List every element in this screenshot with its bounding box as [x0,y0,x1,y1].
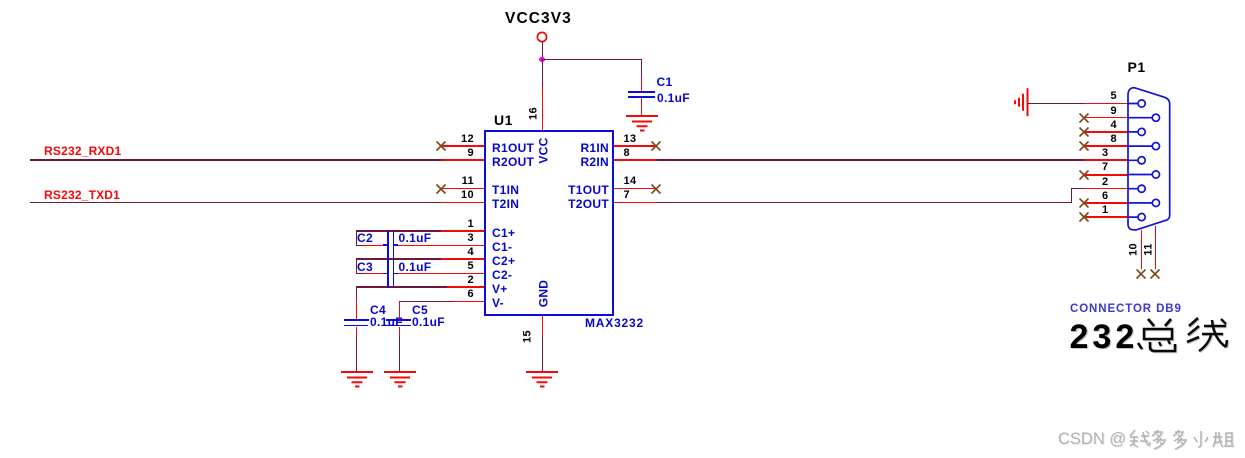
pin label T2OUT [489,199,609,210]
label 232 (bus title digits) [1070,320,1139,354]
ground U1 pin15 [526,371,558,389]
pin number 1 (P1) [1079,205,1109,216]
label 总 (hand-drawn glyph) [1135,317,1183,353]
wire pin1 C1+ row [356,230,441,232]
no-connect X P1 pin7 [1078,169,1090,181]
pin number 8 [624,148,631,159]
pin number 6 [444,289,474,300]
ground C5 [384,371,416,389]
wire C1 lower lead [641,98,642,116]
pin label GND rotated [538,274,549,314]
label 线 (hand-drawn glyph) [1184,317,1232,353]
no-connect X pin11 [435,183,447,195]
watermark CSDN [1058,430,1126,449]
capacitor C1 [628,91,655,93]
op-amp U1 MAX3232 body [484,130,614,316]
no-connect X pin12 [435,140,447,152]
no-connect X P1 pin4 [1078,126,1090,138]
label C5 [412,305,428,316]
node junction VCC [539,57,544,62]
wire pin15 GND stem [542,316,543,337]
pin number 9 [444,148,474,159]
no-connect X P1 pin10 [1135,268,1147,280]
wire P1 pin10 [1141,230,1142,269]
pin number 11 [444,176,474,187]
pin number 7 [624,190,631,201]
pin number 5 [444,261,474,272]
wire corner pin1-C2 [356,231,357,246]
label MAX3232 [585,318,644,329]
label C2 [357,233,373,244]
wire pin16 stem [542,60,543,86]
wire C1 upper lead [641,59,642,76]
wire VCC horizontal to C1 [542,59,642,60]
pin number 10 [444,190,474,201]
pin number 13 [624,134,637,145]
no-connect X P1 pin8 [1078,140,1090,152]
ground P1 pin5 (rotated earth) [1012,86,1030,118]
pin number 9 (P1) [1087,106,1117,117]
pin number 3 (P1) [1079,148,1109,159]
pin number 15 rotated [522,327,533,345]
pin number 4 [444,247,474,258]
no-connect X P1 pin9 [1078,112,1090,124]
pin label R2OUT [492,157,534,168]
pin number 8 (P1) [1087,134,1117,145]
net RS232_TXD1 [44,190,120,201]
wire P1 pin11 [1155,226,1156,269]
label U1 [494,115,513,126]
wire P1 pin7 stub [1084,174,1128,176]
pin label C1+ [492,228,515,239]
wire net pin7 to P1 pin2 [614,202,657,203]
pin number 5 (P1) [1087,91,1117,102]
pin number 12 [444,134,474,145]
no-connect X pin14 [650,183,662,195]
wire net pin8 to P1 pin3 [614,159,658,161]
wire P1 pin8 stub [1084,145,1128,147]
pin label VCC rotated [538,131,549,171]
label P1 [1128,62,1146,73]
pin number 2 [444,275,474,286]
label C1 [657,77,673,88]
wire RXD1 [30,159,441,161]
wire P1 pin1 stub [1084,216,1128,218]
label C4 [370,305,386,316]
wire pin2 V+ row [356,286,447,288]
pin number 4 (P1) [1087,120,1117,131]
wire C5 lower lead [399,327,400,337]
wire C4 lower lead [356,327,357,337]
no-connect X pin13 [650,140,662,152]
pin number 3 [444,233,474,244]
wire pin12 stub [441,145,484,147]
wire pin14 stub [614,188,657,189]
wire V- down to C5 [399,302,400,319]
no-connect X P1 pin6 [1078,197,1090,209]
pin label T2IN [492,199,519,210]
pin number 16 rotated [528,105,539,123]
pin label R2IN [489,157,609,168]
ground C4 [341,371,373,389]
capacitor C5 [386,319,411,321]
pin label R1IN [489,143,609,154]
wire corner pin4-C3 [356,259,357,274]
pin number 11 rotated [1143,238,1154,260]
capacitor C4 [344,319,369,321]
pin number 6 (P1) [1079,191,1109,202]
wire TXD1 [30,202,441,203]
pin label C2- [492,270,512,281]
pin label C2+ [492,256,515,267]
net RS232_RXD1 [44,146,121,157]
label CONNECTOR DB9 [1070,304,1182,315]
wire pin5 C2- row [356,273,364,274]
pin label T1IN [492,185,519,196]
wire P1 pin5 net [1028,103,1084,104]
pin number 1 [444,219,474,230]
pin label V+ [492,284,508,295]
pin label R1OUT [492,143,534,154]
pin number 10 rotated [1129,238,1140,260]
pin label C1- [492,242,512,253]
pin number 2 (P1) [1079,177,1109,188]
wire pin3 C1- row [356,245,364,246]
ground C1 [626,115,658,133]
wire VCC stem [542,41,543,59]
pin label T1OUT [489,185,609,196]
no-connect X P1 pin11 [1149,268,1161,280]
no-connect X P1 pin1 [1078,211,1090,223]
pin number 14 [624,176,637,187]
label C3 [357,262,373,273]
wire V+ down to C4 [356,287,357,299]
wire pin13 stub [614,145,657,147]
wire P1 pin6 stub [1084,202,1128,203]
wire pin4 C2+ row [356,258,441,260]
capacitor C2 plates [387,231,389,288]
power port VCC3V3 [505,12,572,25]
wire pin6 V- row [399,301,453,302]
wire P1 pin9 stub [1084,117,1128,118]
pin label V- [492,298,504,309]
watermark 钱多多小姐 (hand-drawn glyphs) [1128,428,1234,450]
wire pin11 stub [441,188,484,189]
pin number 7 (P1) [1079,162,1109,173]
wire P1 pin4 stub [1084,131,1128,133]
connector P1 DB9 body and pads [1124,84,1176,236]
